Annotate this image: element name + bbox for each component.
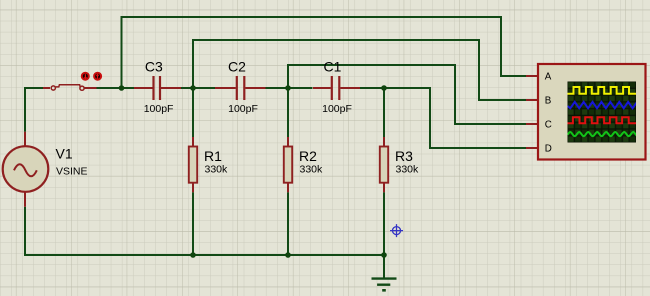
junction dot R1 bottom bbox=[190, 252, 196, 258]
svg-text:C: C bbox=[545, 120, 552, 131]
svg-text:C1: C1 bbox=[324, 59, 342, 75]
svg-text:A: A bbox=[545, 72, 552, 83]
junction dot R2 bottom bbox=[285, 252, 291, 258]
capacitor C1 bbox=[313, 76, 360, 100]
junction dot ground rail bbox=[381, 252, 387, 258]
resistor R2 bbox=[284, 137, 292, 192]
svg-text:R3: R3 bbox=[395, 148, 413, 164]
wire: V1 top to switch bbox=[25, 88, 45, 132]
wire: C3 to C2 bbox=[181, 87, 219, 89]
svg-text:330k: 330k bbox=[396, 164, 420, 176]
svg-text:D: D bbox=[545, 144, 552, 155]
origin marker bbox=[390, 224, 403, 237]
svg-text:C2: C2 bbox=[228, 59, 246, 75]
svg-text:R2: R2 bbox=[299, 148, 317, 164]
trace C (red square) bbox=[568, 117, 637, 123]
wire: V1 bottom to ground rail bbox=[25, 207, 384, 278]
svg-text:V1: V1 bbox=[56, 146, 73, 162]
trace D (green sine) bbox=[568, 132, 637, 136]
wire: node C tap (vertical + run to scope pin C) bbox=[288, 65, 526, 124]
svg-text:100pF: 100pF bbox=[322, 103, 352, 115]
node B junction dot bbox=[190, 85, 196, 91]
oscilloscope U1 bbox=[526, 64, 646, 160]
svg-text:330k: 330k bbox=[300, 164, 324, 176]
wire: R2 bottom lead bbox=[287, 192, 289, 255]
wire: node A tap (vertical + top run to scope pin A) bbox=[122, 17, 527, 88]
node C junction dot bbox=[285, 85, 291, 91]
wire: R1 top lead bbox=[192, 88, 194, 137]
wire: R2 top lead bbox=[287, 88, 289, 137]
wire: R3 top lead bbox=[383, 88, 385, 137]
capacitor C2 bbox=[215, 76, 266, 100]
svg-text:100pF: 100pF bbox=[228, 103, 258, 115]
resistor R3 bbox=[380, 137, 388, 192]
svg-text:VSINE: VSINE bbox=[56, 166, 88, 178]
voltage source V1 bbox=[3, 132, 49, 207]
svg-text:B: B bbox=[545, 96, 552, 107]
switch toggle button up bbox=[94, 73, 101, 80]
scope screen bbox=[568, 82, 637, 143]
wire: R1 bottom lead bbox=[192, 192, 194, 255]
ground bbox=[372, 279, 397, 291]
switch SW1 bbox=[43, 85, 97, 91]
wire: node D run (main row to scope pin D) bbox=[384, 88, 526, 148]
resistor R1 bbox=[189, 137, 197, 192]
trace A (yellow square) bbox=[568, 87, 637, 94]
node D junction dot bbox=[381, 85, 387, 91]
capacitor C3 bbox=[134, 76, 181, 100]
svg-text:100pF: 100pF bbox=[144, 103, 174, 115]
trace B (blue noisy wave) bbox=[568, 102, 638, 108]
svg-text:C3: C3 bbox=[145, 59, 163, 75]
wire: C2 to C1 bbox=[266, 87, 313, 89]
wire: C1 to node D bbox=[360, 87, 385, 89]
wire: R3 bottom lead bbox=[383, 192, 385, 255]
svg-text:330k: 330k bbox=[205, 164, 229, 176]
node A junction dot bbox=[119, 85, 125, 91]
svg-text:R1: R1 bbox=[204, 148, 222, 164]
switch toggle button down bbox=[82, 73, 89, 80]
wire: node B tap (vertical + run to scope pin B) bbox=[193, 40, 526, 100]
wire: switch to C3 bbox=[97, 87, 135, 89]
